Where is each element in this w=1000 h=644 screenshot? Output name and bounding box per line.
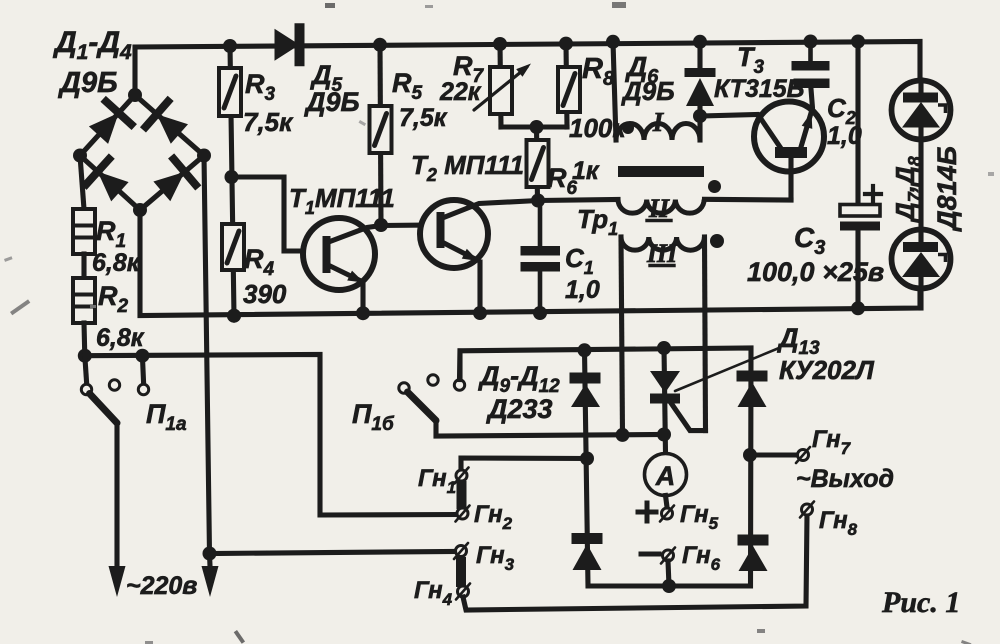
- svg-text:100,0 ×25в: 100,0 ×25в: [747, 257, 884, 287]
- svg-text:1,0: 1,0: [565, 276, 600, 304]
- svg-text:100к: 100к: [569, 113, 627, 143]
- svg-text:1,0: 1,0: [827, 122, 862, 150]
- svg-text:КУ202Л: КУ202Л: [779, 355, 875, 385]
- svg-text:7,5к: 7,5к: [399, 104, 448, 132]
- svg-text:I: I: [652, 107, 665, 137]
- svg-text:390: 390: [243, 279, 287, 309]
- svg-text:II: II: [648, 194, 670, 223]
- svg-text:7,5к: 7,5к: [243, 107, 294, 137]
- svg-text:III: III: [646, 239, 678, 268]
- svg-text:Д9Б: Д9Б: [57, 67, 118, 99]
- svg-text:Д9Б: Д9Б: [621, 76, 675, 106]
- svg-text:Д1-Д4: Д1-Д4: [52, 26, 132, 64]
- svg-text:Д9Б: Д9Б: [304, 87, 360, 117]
- svg-text:6,8к: 6,8к: [96, 324, 145, 352]
- svg-text:КТ315Б: КТ315Б: [714, 75, 804, 103]
- svg-text:Т1МП111: Т1МП111: [289, 183, 395, 218]
- svg-text:Д814Б: Д814Б: [932, 146, 962, 232]
- svg-text:~220в: ~220в: [126, 572, 197, 600]
- svg-text:~Выход: ~Выход: [796, 465, 894, 493]
- svg-text:Д7,Д8: Д7,Д8: [890, 156, 925, 223]
- svg-text:А: А: [655, 461, 676, 491]
- svg-text:Д233: Д233: [486, 394, 553, 424]
- svg-text:Рис. 1: Рис. 1: [881, 586, 960, 619]
- svg-text:22к: 22к: [439, 78, 482, 106]
- svg-text:1к: 1к: [572, 157, 600, 185]
- svg-text:6,8к: 6,8к: [92, 249, 141, 277]
